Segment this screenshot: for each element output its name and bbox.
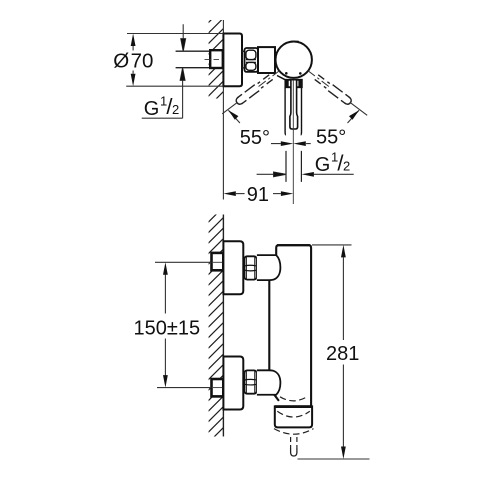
dimension Ø70 lines (126, 34, 223, 87)
lever / outlet center line (top view) (292, 80, 294, 204)
svg-text:G: G (144, 98, 160, 120)
lower union center line (213, 387, 223, 389)
dimension 91 (223, 191, 235, 196)
screw dots on knob (285, 72, 288, 75)
supply pipe (top view) (176, 51, 210, 67)
svg-text:55°: 55° (240, 127, 270, 149)
svg-text:55°: 55° (316, 126, 346, 148)
dimension G1/2 arrow below pipe with leader (180, 68, 185, 118)
lower pipe end in wall (212, 379, 224, 396)
dimension Ø70 arrows (131, 34, 136, 47)
upper pipe end in wall (212, 253, 224, 270)
lever handle pointing down (top view) (290, 81, 298, 130)
55 deg leader arrow left (228, 110, 240, 123)
hidden edge arc above hose nut (280, 397, 307, 401)
lower union dome (257, 370, 281, 394)
dimension 150±15 line and arrows (164, 275, 166, 376)
body top edge emphasize (277, 244, 310, 246)
pipe center line (top view) (205, 58, 220, 60)
flat cap on knob top (291, 40, 299, 42)
upper union dome (257, 255, 281, 280)
svg-text:70: 70 (131, 49, 154, 72)
hex nut on union (top view, side) (245, 48, 258, 72)
valve body (top view, side) (258, 47, 275, 73)
hose union nut at outlet (275, 406, 312, 427)
knob circle (top view) (276, 42, 312, 78)
svg-text:91: 91 (247, 184, 269, 206)
lower hex nut (front) (244, 370, 256, 393)
mixer body (front) (269, 245, 311, 406)
dimension 281 line and arrows (342, 257, 344, 447)
pipe stub between escutcheon and nut (top view) (242, 51, 245, 68)
upper escutcheon (front) (223, 241, 243, 294)
wall hatching (top view) (209, 20, 224, 99)
svg-text:150±15: 150±15 (134, 317, 201, 339)
svg-text:2: 2 (343, 158, 350, 173)
collar below knob (top view) (277, 76, 302, 88)
svg-text:281: 281 (326, 343, 359, 365)
pipe threaded end in wall (top view) (210, 50, 223, 68)
G 1/2 label (right) (315, 150, 350, 176)
upper hex nut (front) (244, 256, 256, 279)
55 deg dimension arrows at lever center (271, 143, 311, 145)
shower outlet tube behind lever (top view) (285, 88, 301, 135)
dimension 150±15 extension lines (155, 262, 212, 387)
wall hatching (bottom view) (209, 215, 224, 437)
upper union center line (213, 261, 223, 263)
hose connector tip (291, 448, 297, 456)
wall face line (top view) (222, 20, 224, 200)
dimension 281 extension lines (298, 245, 370, 459)
G 1/2 label (upper left) (142, 117, 183, 119)
escutcheon (top view, side) (223, 34, 242, 87)
hidden hose connector below nut (274, 429, 314, 435)
dimension G1/2 arrow above pipe (181, 24, 186, 51)
svg-text:Ø: Ø (113, 49, 129, 72)
G1/2 outlet dimension arrows (257, 172, 286, 177)
lower escutcheon (front) (223, 357, 243, 410)
dashed lever swung left 55 deg (305, 68, 369, 119)
svg-text:G: G (315, 154, 331, 176)
G1/2 outlet extension lines (286, 151, 301, 182)
svg-text:2: 2 (172, 102, 179, 117)
wall face line (bottom view) (222, 215, 224, 437)
dashed lever swung right 55 deg (220, 68, 282, 117)
55 deg leader arrow right (348, 110, 360, 123)
